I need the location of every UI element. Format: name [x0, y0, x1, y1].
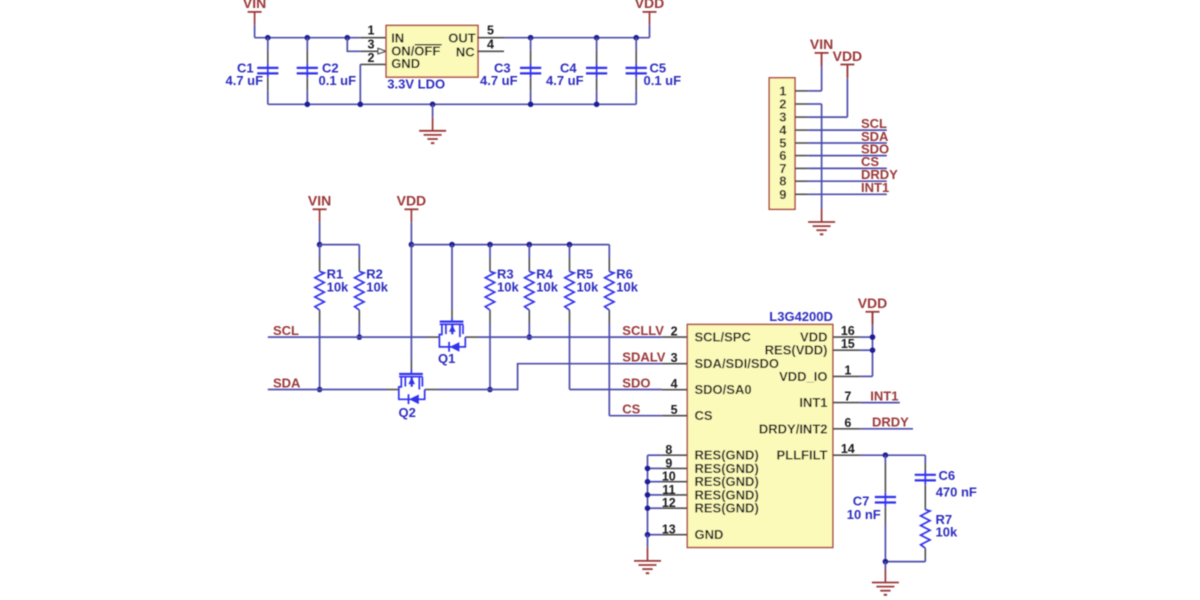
svg-text:10: 10	[662, 470, 676, 484]
svg-text:VDD: VDD	[635, 0, 665, 11]
svg-text:CS: CS	[622, 402, 640, 417]
svg-text:14: 14	[841, 442, 855, 456]
svg-text:CS: CS	[695, 408, 713, 423]
svg-text:1: 1	[844, 363, 851, 377]
svg-text:Q2: Q2	[399, 405, 416, 420]
svg-text:10k: 10k	[327, 279, 349, 294]
svg-text:NC: NC	[456, 44, 475, 59]
svg-text:RES(VDD): RES(VDD)	[765, 343, 828, 358]
svg-text:DRDY/INT2: DRDY/INT2	[759, 421, 828, 436]
svg-text:C6: C6	[939, 468, 956, 483]
svg-text:470 nF: 470 nF	[936, 484, 977, 499]
svg-text:INT1: INT1	[870, 388, 898, 403]
svg-text:SCL/SPC: SCL/SPC	[695, 330, 752, 345]
svg-text:VIN: VIN	[308, 193, 331, 209]
svg-text:SCL: SCL	[273, 323, 299, 338]
svg-text:4.7 uF: 4.7 uF	[226, 73, 264, 88]
svg-text:2: 2	[368, 51, 375, 65]
svg-text:1: 1	[368, 24, 375, 38]
svg-text:0.1 uF: 0.1 uF	[319, 73, 357, 88]
svg-text:10k: 10k	[577, 279, 599, 294]
svg-text:9: 9	[779, 187, 786, 202]
svg-text:4: 4	[487, 38, 494, 52]
svg-text:SDO/SA0: SDO/SA0	[695, 382, 752, 397]
svg-text:Q1: Q1	[438, 351, 455, 366]
svg-text:DRDY: DRDY	[872, 415, 909, 430]
svg-text:12: 12	[662, 496, 676, 510]
svg-text:SCLLV: SCLLV	[622, 323, 664, 338]
svg-text:5: 5	[487, 24, 494, 38]
svg-text:SDA: SDA	[273, 375, 301, 390]
svg-text:VIN: VIN	[810, 36, 833, 52]
svg-text:INT1: INT1	[861, 180, 889, 195]
svg-text:INT1: INT1	[799, 395, 827, 410]
svg-text:PLLFILT: PLLFILT	[776, 448, 827, 463]
svg-text:6: 6	[844, 416, 851, 430]
svg-text:VDD: VDD	[397, 193, 427, 209]
svg-text:16: 16	[841, 324, 855, 338]
svg-text:4.7 uF: 4.7 uF	[546, 73, 584, 88]
svg-text:7: 7	[844, 390, 851, 404]
svg-text:4.7 uF: 4.7 uF	[480, 73, 518, 88]
svg-text:10 nF: 10 nF	[847, 507, 881, 522]
svg-text:SDA/SDI/SDO: SDA/SDI/SDO	[695, 356, 780, 371]
svg-text:15: 15	[841, 337, 855, 351]
svg-text:RES(GND): RES(GND)	[695, 501, 759, 516]
svg-text:GND: GND	[391, 56, 420, 71]
svg-text:10k: 10k	[366, 279, 388, 294]
svg-text:3: 3	[368, 38, 375, 52]
svg-text:10k: 10k	[536, 279, 558, 294]
svg-text:11: 11	[662, 483, 675, 497]
svg-text:L3G4200D: L3G4200D	[769, 309, 833, 324]
svg-text:10k: 10k	[616, 279, 638, 294]
svg-text:SDALV: SDALV	[622, 350, 665, 365]
svg-text:0.1 uF: 0.1 uF	[644, 73, 682, 88]
svg-text:13: 13	[662, 523, 676, 537]
svg-text:VDD: VDD	[858, 295, 888, 311]
svg-text:VIN: VIN	[243, 0, 266, 11]
svg-text:VDD: VDD	[833, 48, 863, 64]
svg-text:GND: GND	[695, 527, 724, 542]
svg-text:10k: 10k	[936, 525, 958, 540]
svg-text:SDO: SDO	[622, 375, 650, 390]
svg-text:VDD_IO: VDD_IO	[779, 369, 827, 384]
svg-text:9: 9	[665, 456, 672, 470]
svg-text:10k: 10k	[497, 279, 519, 294]
svg-text:3.3V LDO: 3.3V LDO	[387, 77, 445, 92]
svg-text:8: 8	[665, 443, 672, 457]
